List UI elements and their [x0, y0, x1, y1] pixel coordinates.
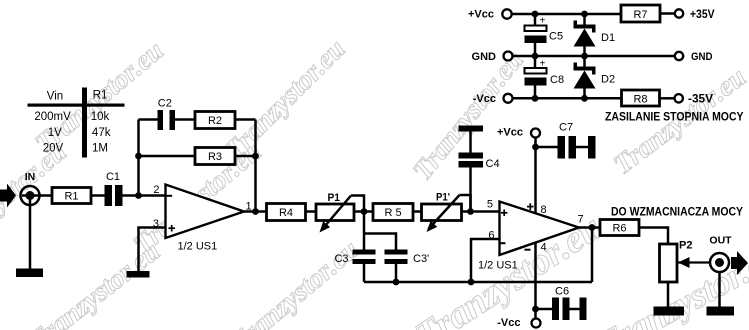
svg-text:C2: C2 — [158, 98, 172, 110]
node (D1 top) — [581, 11, 588, 18]
wire (C1 to pin2) — [123, 194, 166, 197]
svg-text:R2: R2 — [208, 115, 222, 127]
wire (feedback right vertical op2) — [591, 228, 594, 283]
wire (P1' to pin5) — [462, 210, 500, 213]
svg-text:1/2 US1: 1/2 US1 — [478, 260, 518, 272]
svg-text:Tranzystor.eu: Tranzystor.eu — [224, 234, 364, 330]
zener diode D1 — [574, 14, 616, 56]
connector IN — [21, 171, 53, 269]
svg-text:P2: P2 — [679, 240, 692, 252]
wire (output op2) — [579, 226, 600, 229]
wire — [91, 194, 105, 197]
svg-text:P1': P1' — [436, 192, 450, 204]
output arrow — [731, 251, 748, 275]
terminal -Vcc (supply input) — [473, 93, 513, 105]
node (C7 tap) — [532, 144, 539, 151]
resistor R1 — [52, 188, 91, 204]
op-amp U1B (1/2 US1) — [478, 199, 584, 272]
capacitor C2 — [158, 98, 176, 131]
node (pin5/C4) — [467, 208, 474, 215]
wire (-Vcc rail) — [513, 97, 622, 100]
svg-text:20V: 20V — [43, 143, 64, 155]
wire (C3 top) — [363, 212, 366, 250]
svg-text:C3': C3' — [413, 253, 429, 265]
capacitor C5 — [525, 14, 564, 56]
svg-text:C3: C3 — [334, 253, 348, 265]
svg-text:R7: R7 — [633, 9, 647, 21]
svg-text:1/2 US1: 1/2 US1 — [178, 241, 218, 253]
node (D2 bottom) — [581, 95, 588, 102]
ground (C7) — [588, 136, 596, 159]
wire — [639, 228, 668, 245]
ground (OUT jack) — [707, 307, 735, 316]
svg-text:C1: C1 — [106, 171, 120, 183]
terminal +Vcc (supply input) — [468, 9, 512, 21]
svg-text:R8: R8 — [633, 94, 647, 106]
terminal +35V — [675, 7, 715, 21]
svg-text:2: 2 — [153, 184, 159, 196]
terminal -35V — [675, 92, 714, 106]
node (output/feedback) — [252, 208, 259, 215]
terminal GND (left) — [472, 51, 513, 63]
svg-text:Tranzystor.eu: Tranzystor.eu — [23, 236, 166, 330]
svg-text:ZASILANIE STOPNIA MOCY: ZASILANIE STOPNIA MOCY — [605, 110, 744, 124]
svg-text:5: 5 — [487, 199, 493, 211]
svg-text:8: 8 — [541, 204, 547, 216]
wire (C3 bottom) — [363, 264, 366, 282]
wire — [139, 118, 158, 121]
wire — [235, 155, 256, 158]
svg-text:+35V: +35V — [690, 7, 715, 21]
wire (pin3 to ground) — [139, 228, 166, 272]
svg-text:R 5: R 5 — [384, 207, 401, 219]
svg-text:GND: GND — [691, 51, 713, 63]
wire (+Vcc rail) — [512, 13, 621, 16]
wire (pin 4 to -Vcc) — [534, 242, 537, 319]
op-amp U1A (1/2 US1) — [153, 184, 252, 253]
svg-text:C6: C6 — [555, 286, 569, 298]
capacitor C1 — [105, 171, 123, 206]
ground (IN jack) — [16, 269, 43, 278]
resistor R7 — [621, 5, 660, 22]
svg-text:3: 3 — [153, 218, 159, 230]
svg-text:-Vcc: -Vcc — [473, 93, 496, 105]
capacitor C8 — [525, 56, 565, 98]
svg-text:1V: 1V — [48, 127, 62, 139]
svg-text:6: 6 — [488, 230, 494, 242]
svg-text:DO WZMACNIACZA MOCY: DO WZMACNIACZA MOCY — [611, 204, 743, 218]
ground (C6) — [580, 298, 587, 321]
resistor R8 — [622, 90, 660, 106]
resistor R4 — [267, 204, 306, 221]
svg-text:GND: GND — [472, 51, 497, 63]
input arrow — [0, 184, 16, 208]
node (feedback/pin2) — [135, 192, 142, 199]
potentiometer P1' — [422, 192, 471, 233]
node (R3 right) — [252, 153, 259, 160]
svg-text:R1: R1 — [93, 90, 108, 102]
wire — [139, 155, 196, 158]
node (C6 tap) — [532, 306, 539, 313]
terminal -Vcc (op-amp) — [497, 317, 540, 329]
potentiometer P1 — [316, 192, 364, 233]
wire — [660, 12, 675, 15]
node (C3' bottom) — [393, 279, 400, 286]
connector OUT — [709, 235, 732, 307]
svg-text:-35V: -35V — [688, 92, 713, 106]
wire (pin 6) — [471, 239, 500, 282]
svg-text:D2: D2 — [601, 74, 615, 86]
terminal GND (right) — [675, 51, 713, 63]
ground (P2) — [654, 307, 685, 316]
svg-text:10k: 10k — [91, 111, 110, 123]
ground (pin 3) — [127, 271, 150, 278]
node (D1/D2) — [581, 53, 588, 60]
node (C5 top) — [532, 11, 539, 18]
zener diode D2 — [574, 56, 616, 98]
node (pin6 tap) — [468, 279, 475, 286]
svg-text:+Vcc: +Vcc — [497, 127, 523, 139]
svg-text:R3: R3 — [208, 151, 222, 163]
resistor R2 — [195, 112, 235, 129]
svg-text:200mV: 200mV — [34, 111, 71, 123]
resistor R3 — [195, 148, 235, 165]
wire — [175, 118, 195, 121]
terminal +Vcc (op-amp) — [497, 127, 540, 139]
wire (C3' bottom) — [395, 264, 398, 282]
capacitor C3' — [385, 250, 430, 266]
wire — [413, 210, 422, 213]
svg-text:OUT: OUT — [709, 235, 732, 247]
svg-text:R4: R4 — [279, 207, 293, 219]
svg-text:C7: C7 — [559, 122, 573, 134]
node (R3 left) — [135, 153, 142, 160]
svg-text:47k: 47k — [92, 127, 111, 139]
wire (feedback right vertical) — [254, 120, 257, 212]
resistor R5 — [373, 204, 413, 221]
node (P1/R5/C3) — [361, 208, 368, 215]
svg-text:C8: C8 — [550, 74, 564, 86]
wire — [306, 210, 317, 213]
wire (feedback left vertical) — [137, 120, 140, 196]
svg-text:7: 7 — [578, 214, 584, 226]
svg-text:4: 4 — [541, 242, 547, 254]
svg-text:IN: IN — [25, 171, 36, 183]
wire — [354, 210, 373, 213]
potentiometer P2 — [660, 240, 711, 307]
node (C8 bottom) — [532, 95, 539, 102]
capacitor C7 — [536, 122, 589, 159]
wire — [660, 97, 675, 100]
svg-text:Vin: Vin — [47, 91, 63, 103]
svg-text:P1: P1 — [328, 192, 341, 204]
capacitor C4 — [459, 132, 500, 212]
svg-text:+Vcc: +Vcc — [468, 9, 494, 21]
svg-text:D1: D1 — [601, 32, 615, 44]
table Vin/R1 — [28, 88, 125, 158]
resistor R6 — [600, 220, 639, 236]
ground (C4 top bar) — [459, 126, 484, 132]
svg-text:-Vcc: -Vcc — [497, 317, 520, 329]
svg-text:R1: R1 — [64, 191, 78, 203]
wire (output op1) — [244, 210, 267, 213]
capacitor C3 — [334, 250, 375, 266]
wire (pin 8 to +Vcc) — [534, 138, 537, 215]
wire (bottom feedback rail) — [364, 281, 592, 284]
wire (C3' bridge) — [364, 234, 396, 250]
node (output/feedback op2) — [589, 224, 596, 231]
wire (GND rail) — [513, 55, 675, 58]
svg-text:C5: C5 — [549, 31, 563, 43]
svg-text:R6: R6 — [612, 223, 626, 235]
capacitor C6 — [536, 286, 580, 321]
wire — [235, 118, 256, 121]
node (C5/C8) — [532, 53, 539, 60]
svg-text:1M: 1M — [92, 143, 108, 155]
svg-text:C4: C4 — [486, 158, 500, 170]
